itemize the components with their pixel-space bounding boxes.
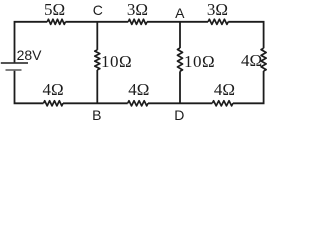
label 10-ohm value (branch A) [184,52,215,72]
wire: branch C vertical, top part [96,22,98,50]
resistor R9 10ohm (branch A, vertical) [177,48,182,71]
wire: branch A vertical, top part [179,22,181,48]
wire top left: battery top to top-left corner and across to 5-ohm [15,22,48,63]
wire: node B segment between bottom resistors [63,102,128,104]
wire: branch A vertical, bottom part to node D [179,71,181,103]
resistor R6 4ohm (bottom middle) [128,101,148,106]
resistor R2 3ohm (top middle-left) [128,19,147,24]
label 4-ohm value (bottom middle) [128,80,149,100]
resistor R3 3ohm (top right) [208,19,228,24]
battery 28V label [17,47,42,63]
label 3-ohm value (left) [127,0,148,20]
wire: 4ohm right down to bottom-right corner, across to 4ohm-3 [233,71,264,103]
label 10-ohm value (branch C) [101,52,132,72]
wire: bottom-left corner up to battery bottom [15,70,44,103]
wire: node D segment between bottom resistors [148,102,212,104]
wire: 5ohm to 3ohm-1 through node C [65,21,128,23]
battery V1 long positive plate [1,62,28,64]
wire: 3ohm-1 to 3ohm-2 through node A [147,21,208,23]
wire: branch C vertical, bottom part to node B [96,70,98,103]
node B label [92,107,101,123]
label 4-ohm value (bottom right) [214,80,235,100]
label 3-ohm value (right) [207,0,228,20]
label 4-ohm value (bottom left) [43,80,64,100]
node D label [174,107,184,123]
node C label [93,2,103,18]
resistor R5 4ohm (bottom right) [212,101,233,106]
resistor R1 5ohm (top left) [47,19,65,24]
resistor R4 4ohm (right side, vertical) [261,48,266,71]
label 4-ohm value (right side) [241,51,262,71]
resistor R7 4ohm (bottom left) [44,101,64,106]
label 5-ohm value [44,0,65,20]
resistor R8 10ohm (branch C, vertical) [95,50,100,70]
node A label [175,5,184,21]
wire: 3ohm-2 to top-right corner, down to 4ohm right [228,22,263,48]
battery V1 short negative plate [6,69,22,71]
